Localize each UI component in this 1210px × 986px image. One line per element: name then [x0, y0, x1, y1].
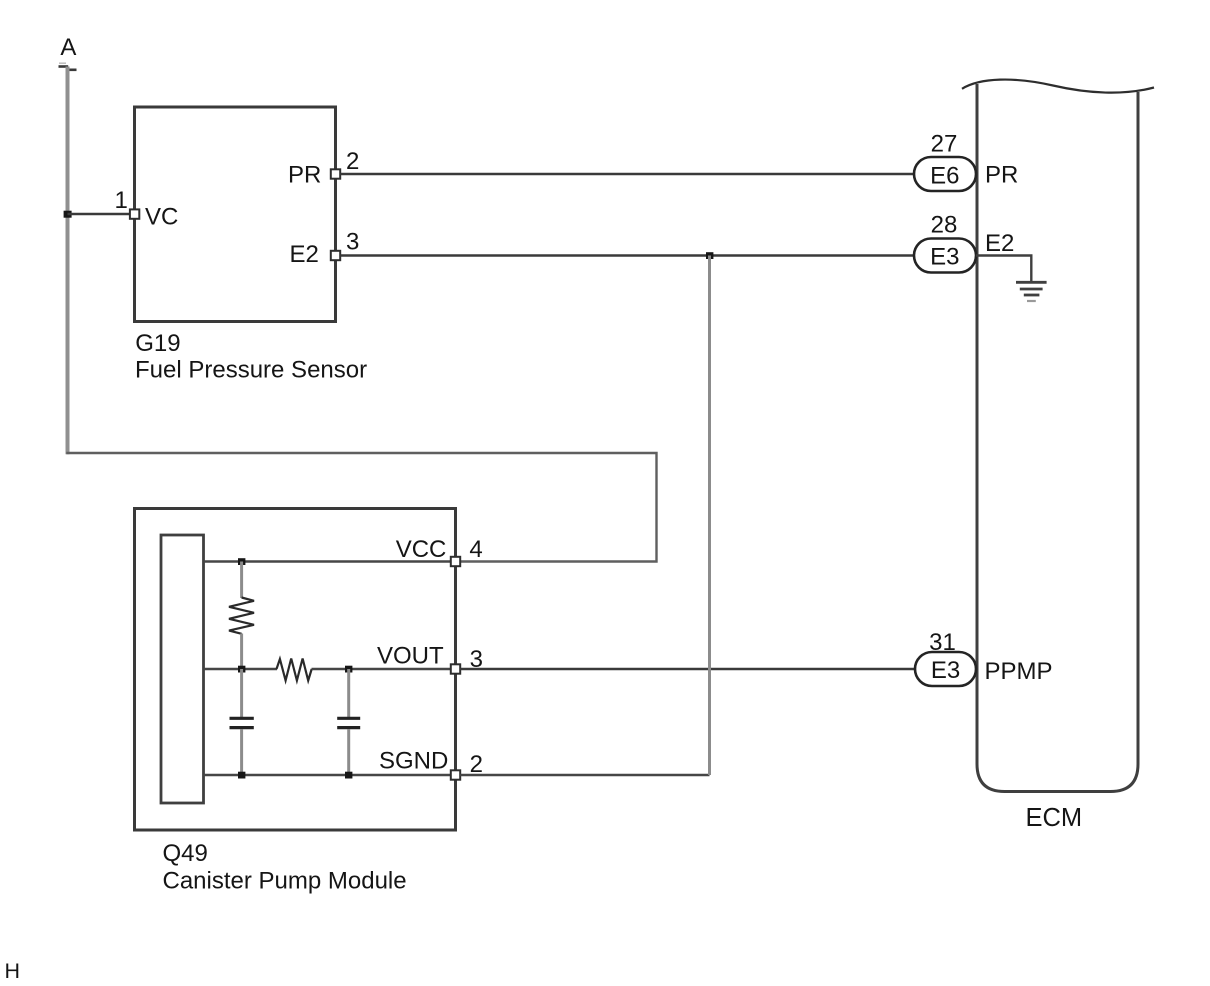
- pin 3 terminal square (VOUT): [451, 664, 460, 673]
- wire: E2 terminal to ground: [976, 256, 1031, 282]
- wire: VCC rail: [204, 560, 451, 562]
- pin 1 terminal square (VC): [130, 209, 139, 218]
- ECM torn-edge wave top: [962, 80, 1154, 93]
- wire: SGND run to E2 junction: [460, 774, 709, 776]
- resistor R1 (vertical zigzag): [229, 598, 254, 634]
- pin 2 terminal square (SGND): [451, 770, 460, 779]
- pin 2 terminal square (PR): [331, 169, 340, 178]
- svg-text:PR: PR: [288, 162, 321, 189]
- junction on VCC rail: [238, 558, 245, 565]
- junction on VOUT rail at R1: [238, 666, 245, 673]
- svg-text:VC: VC: [145, 204, 178, 231]
- svg-text:1: 1: [115, 187, 128, 214]
- svg-text:VOUT: VOUT: [377, 643, 444, 670]
- ECM body outline: [977, 84, 1138, 792]
- svg-text:28: 28: [931, 211, 958, 238]
- capacitor C1 top lead: [240, 669, 243, 717]
- svg-text:Fuel Pressure Sensor: Fuel Pressure Sensor: [135, 357, 367, 384]
- junction on SGND rail at C2: [345, 772, 352, 779]
- svg-text:VCC: VCC: [396, 536, 447, 563]
- resistor R1 bottom lead: [240, 634, 243, 670]
- capacitor C1 bottom lead: [240, 729, 243, 775]
- wire: VOUT rail left segment: [204, 668, 278, 670]
- pin 3 terminal square (E2): [331, 251, 340, 260]
- connector oval E6 (terminal 27): [914, 157, 976, 191]
- svg-text:PPMP: PPMP: [985, 658, 1053, 685]
- svg-text:ECM: ECM: [1026, 804, 1083, 832]
- svg-text:A: A: [60, 34, 76, 61]
- wire: VOUT rail right segment: [312, 668, 451, 670]
- wire: VC supply vertical run from connector A: [66, 67, 70, 455]
- Q49 component box: [135, 509, 456, 831]
- ground symbol: [1016, 282, 1047, 301]
- junction: SGND riser onto E2 wire: [706, 252, 713, 259]
- svg-text:G19: G19: [135, 330, 180, 357]
- resistor R1 top lead: [240, 562, 243, 599]
- resistor R2 (horizontal zigzag): [277, 659, 312, 681]
- svg-text:E3: E3: [930, 244, 959, 271]
- wire: PR to ECM terminal 27 E6: [340, 173, 914, 175]
- off-page connector arrow A: [59, 63, 77, 70]
- svg-text:4: 4: [469, 536, 482, 563]
- pin 4 terminal square (VCC): [451, 557, 460, 566]
- svg-text:H: H: [5, 959, 21, 983]
- connector oval E3 (terminal 31): [915, 652, 976, 686]
- wire: E2 to ECM terminal 28 E3: [340, 254, 914, 256]
- svg-text:E6: E6: [930, 162, 959, 189]
- capacitor C2 bottom lead: [347, 729, 350, 775]
- junction on SGND rail at C1: [238, 772, 245, 779]
- svg-text:E2: E2: [290, 241, 319, 268]
- svg-text:E2: E2: [985, 230, 1014, 257]
- wire: VC branch to pin 1: [68, 213, 132, 215]
- junction: VC tap on vertical run: [64, 211, 72, 218]
- junction on VOUT rail at C2: [345, 666, 352, 673]
- wire: SGND rail: [204, 774, 451, 776]
- svg-text:3: 3: [346, 228, 359, 255]
- G19 component box: [135, 107, 336, 322]
- wire: VOUT to ECM terminal 31 E3: [460, 668, 915, 670]
- Q49 inner module block: [161, 535, 204, 803]
- svg-text:Q49: Q49: [163, 840, 208, 867]
- svg-text:E3: E3: [931, 657, 960, 684]
- svg-text:PR: PR: [985, 162, 1018, 189]
- connector oval E3 (terminal 28): [914, 239, 976, 273]
- svg-text:2: 2: [346, 148, 359, 175]
- capacitor C1 plates: [230, 717, 254, 720]
- svg-text:Canister Pump Module: Canister Pump Module: [163, 868, 407, 895]
- capacitor C2 top lead: [347, 669, 350, 717]
- capacitor C2 plates: [337, 717, 360, 720]
- svg-text:SGND: SGND: [379, 748, 448, 775]
- wire: A loop over to VCC pin 4 of Q49: [66, 453, 656, 562]
- svg-text:27: 27: [931, 130, 958, 157]
